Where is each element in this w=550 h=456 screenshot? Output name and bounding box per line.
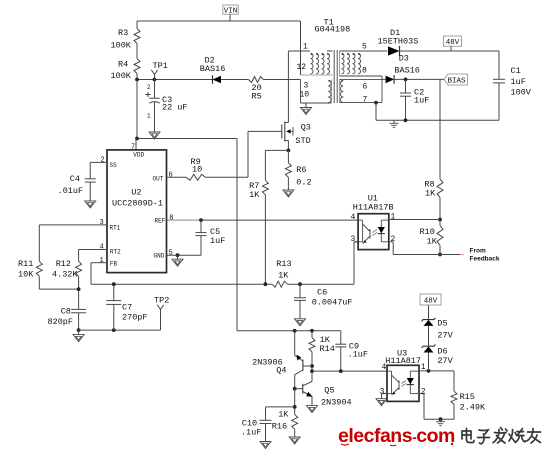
svg-text:3: 3 xyxy=(100,219,104,227)
svg-text:R14: R14 xyxy=(320,344,335,354)
svg-text:48V: 48V xyxy=(424,298,438,306)
svg-text:R15: R15 xyxy=(460,392,475,402)
svg-text:10: 10 xyxy=(192,165,202,175)
svg-text:2: 2 xyxy=(101,157,105,165)
svg-text:REF: REF xyxy=(155,217,166,224)
svg-text:27V: 27V xyxy=(437,331,453,341)
svg-text:RT2: RT2 xyxy=(110,249,121,256)
svg-text:8: 8 xyxy=(362,67,367,76)
svg-text:.01uF: .01uF xyxy=(58,186,84,196)
svg-text:C7: C7 xyxy=(122,303,132,313)
svg-text:1K: 1K xyxy=(278,270,289,280)
svg-text:7: 7 xyxy=(363,96,368,105)
svg-text:Q5: Q5 xyxy=(324,386,334,396)
svg-text:1: 1 xyxy=(100,257,104,265)
svg-text:1uF: 1uF xyxy=(210,236,225,246)
svg-text:Feedback: Feedback xyxy=(470,256,500,263)
svg-text:H11A817B: H11A817B xyxy=(353,203,394,213)
svg-text:STD: STD xyxy=(295,136,310,146)
svg-text:H11A817: H11A817 xyxy=(385,356,421,366)
svg-text:R4: R4 xyxy=(118,60,128,70)
svg-text:1: 1 xyxy=(391,212,396,221)
svg-text:TP1: TP1 xyxy=(153,61,168,71)
svg-text:2.49K: 2.49K xyxy=(460,402,486,412)
svg-text:4: 4 xyxy=(100,244,104,252)
svg-text:From: From xyxy=(470,248,486,255)
svg-text:0.0047uF: 0.0047uF xyxy=(312,298,353,308)
svg-text:1K: 1K xyxy=(249,190,260,200)
svg-text:1K: 1K xyxy=(278,410,289,420)
svg-text:R10: R10 xyxy=(420,227,435,237)
svg-text:100K: 100K xyxy=(111,41,132,51)
svg-text:BAS16: BAS16 xyxy=(394,66,420,76)
svg-text:1: 1 xyxy=(421,363,426,372)
svg-text:1uF: 1uF xyxy=(414,96,429,106)
svg-text:R5: R5 xyxy=(252,92,262,102)
svg-text:VIN: VIN xyxy=(224,7,238,15)
svg-text:1uF: 1uF xyxy=(511,77,526,87)
svg-text:elecfans-com: elecfans-com xyxy=(338,425,455,447)
svg-text:Q3: Q3 xyxy=(301,123,311,133)
svg-text:7: 7 xyxy=(131,144,135,152)
svg-text:R6: R6 xyxy=(296,165,306,175)
svg-text:Q4: Q4 xyxy=(276,365,286,375)
svg-text:4: 4 xyxy=(351,213,356,222)
svg-text:R13: R13 xyxy=(276,259,291,269)
svg-text:6: 6 xyxy=(363,83,368,92)
svg-text:1: 1 xyxy=(147,113,151,120)
svg-text:6: 6 xyxy=(169,172,173,180)
svg-text:12: 12 xyxy=(297,63,307,72)
svg-text:D5: D5 xyxy=(437,319,447,329)
svg-text:2: 2 xyxy=(147,84,151,91)
svg-text:G044198: G044198 xyxy=(315,25,351,35)
svg-text:1: 1 xyxy=(303,43,308,52)
svg-text:R12: R12 xyxy=(56,259,71,269)
svg-text:100V: 100V xyxy=(511,88,532,98)
svg-text:SS: SS xyxy=(110,162,118,169)
svg-text:BAS16: BAS16 xyxy=(200,64,226,74)
svg-text:D6: D6 xyxy=(437,347,447,357)
svg-text:C6: C6 xyxy=(317,288,327,298)
svg-text:UCC2809D-1: UCC2809D-1 xyxy=(112,199,163,209)
svg-text:1K: 1K xyxy=(425,189,436,199)
svg-text:GND: GND xyxy=(154,253,165,260)
svg-text:RT1: RT1 xyxy=(110,225,121,232)
svg-text:TP2: TP2 xyxy=(154,295,169,305)
svg-text:C4: C4 xyxy=(70,174,80,184)
svg-text:270pF: 270pF xyxy=(122,313,148,323)
svg-text:2: 2 xyxy=(391,235,396,244)
svg-text:10K: 10K xyxy=(18,270,34,280)
svg-text:820pF: 820pF xyxy=(48,317,74,327)
svg-text:1K: 1K xyxy=(427,237,438,247)
svg-text:C1: C1 xyxy=(511,66,521,76)
svg-text:5: 5 xyxy=(169,249,173,257)
svg-text:D3: D3 xyxy=(399,54,409,64)
svg-text:100K: 100K xyxy=(111,71,132,81)
svg-text:OUT: OUT xyxy=(153,175,164,182)
svg-text:.1uF: .1uF xyxy=(348,349,368,359)
svg-text:10: 10 xyxy=(300,91,310,100)
svg-text:22 uF: 22 uF xyxy=(162,103,188,113)
svg-text:R16: R16 xyxy=(272,421,287,431)
svg-text:27V: 27V xyxy=(437,356,453,366)
svg-text:4.32K: 4.32K xyxy=(52,270,78,280)
svg-text:4: 4 xyxy=(382,363,387,372)
svg-text:5: 5 xyxy=(362,43,367,52)
svg-text:3: 3 xyxy=(351,235,356,244)
svg-text:C8: C8 xyxy=(61,307,71,317)
svg-text:R11: R11 xyxy=(18,259,33,269)
svg-text:BIAS: BIAS xyxy=(447,78,466,86)
svg-text:U2: U2 xyxy=(131,188,141,198)
svg-text:3: 3 xyxy=(380,388,385,397)
svg-text:FB: FB xyxy=(110,261,118,268)
svg-text:VDD: VDD xyxy=(133,152,144,159)
svg-text:2N3904: 2N3904 xyxy=(321,397,352,407)
svg-text:15ETH03S: 15ETH03S xyxy=(378,37,419,47)
svg-text:R3: R3 xyxy=(118,28,128,38)
svg-text:.1uF: .1uF xyxy=(241,428,261,438)
svg-text:2: 2 xyxy=(421,388,426,397)
svg-text:3: 3 xyxy=(304,82,309,91)
svg-text:48V: 48V xyxy=(446,39,460,47)
svg-text:8: 8 xyxy=(169,214,173,222)
svg-text:0.2: 0.2 xyxy=(296,177,311,187)
